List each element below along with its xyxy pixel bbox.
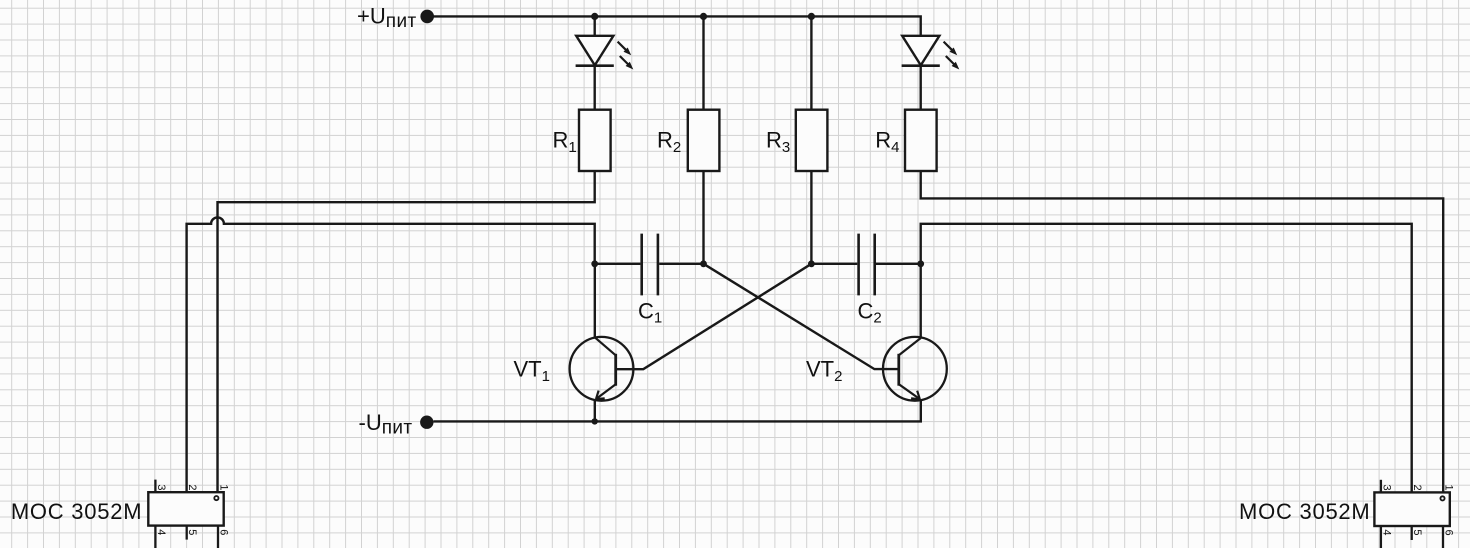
wire LED1 anode stub <box>594 16 596 35</box>
resistor R1 <box>579 110 611 171</box>
wire cross-coupling node R3/C2 to VT1 base <box>616 264 812 369</box>
wire top supply rail <box>434 16 921 35</box>
optocoupler U2 MOC 3052M (right) <box>1374 480 1449 548</box>
svg-text:1: 1 <box>1443 485 1455 491</box>
node R3 on top rail <box>808 13 815 20</box>
svg-text:MOC 3052M: MOC 3052M <box>11 499 142 524</box>
node R3 / C2 left <box>808 260 815 267</box>
wire C1 right lead <box>659 263 703 265</box>
svg-text:6: 6 <box>217 529 229 535</box>
wire R1 bottom to MOC1 pin 1 <box>218 171 595 492</box>
wire C2 right lead <box>876 263 921 265</box>
wire C2 left lead <box>811 263 857 265</box>
svg-text:1: 1 <box>217 484 229 490</box>
capacitor C1 <box>642 234 658 296</box>
wire R2 bottom to node <box>702 171 704 264</box>
svg-text:2: 2 <box>186 484 198 490</box>
svg-text:4: 4 <box>155 529 167 535</box>
LED VD1 <box>576 36 634 70</box>
node VT1 collector / C1 left <box>591 260 598 267</box>
node R2 / C1 right <box>700 260 707 267</box>
transistor VT2 <box>883 337 947 401</box>
wire VT1 collector lead <box>594 264 596 338</box>
wire R4 bottom to MOC2 pin 1 <box>921 171 1443 492</box>
svg-text:5: 5 <box>186 529 198 535</box>
svg-text:2: 2 <box>1411 485 1423 491</box>
svg-text:5: 5 <box>1411 529 1423 535</box>
wire cross-coupling node R2/C1 to VT2 base <box>704 264 899 369</box>
resistor R3 <box>796 110 828 171</box>
node LED1 anode on top rail <box>591 13 598 20</box>
wire C1 left lead <box>595 263 641 265</box>
wire VT1 collector to MOC1 pin 2 (with hop) <box>187 217 595 492</box>
wire bottom supply rail and VT2 emitter lead <box>434 399 921 421</box>
terminal +Upit <box>420 10 434 24</box>
optocoupler U1 MOC 3052M (left) <box>148 480 223 548</box>
capacitor C2 <box>859 234 875 296</box>
wire R2 top stub <box>702 16 704 109</box>
node VT2 collector / C2 right <box>917 260 924 267</box>
node VT1 emitter on bottom rail <box>592 418 598 424</box>
wire VT1 emitter lead <box>594 399 596 422</box>
svg-text:6: 6 <box>1443 529 1455 535</box>
resistor R2 <box>688 110 720 171</box>
svg-text:3: 3 <box>1380 485 1392 491</box>
wire VT2 collector node to MOC2 pin 2 <box>921 224 1412 493</box>
svg-text:3: 3 <box>155 484 167 490</box>
LED VD2 <box>902 36 960 70</box>
terminal -Upit <box>420 416 433 429</box>
wire VT2 collector lead <box>920 264 922 338</box>
svg-text:4: 4 <box>1380 529 1392 535</box>
node R2 on top rail <box>700 13 707 20</box>
wire R3 top stub <box>810 16 812 109</box>
svg-text:MOC 3052M: MOC 3052M <box>1239 499 1370 524</box>
wire LED1 cathode to R1 <box>594 66 596 110</box>
wire LED2 cathode to R4 <box>920 66 922 110</box>
resistor R4 <box>905 110 937 171</box>
wire R3 bottom to node <box>810 171 812 264</box>
transistor VT1 <box>570 337 634 401</box>
